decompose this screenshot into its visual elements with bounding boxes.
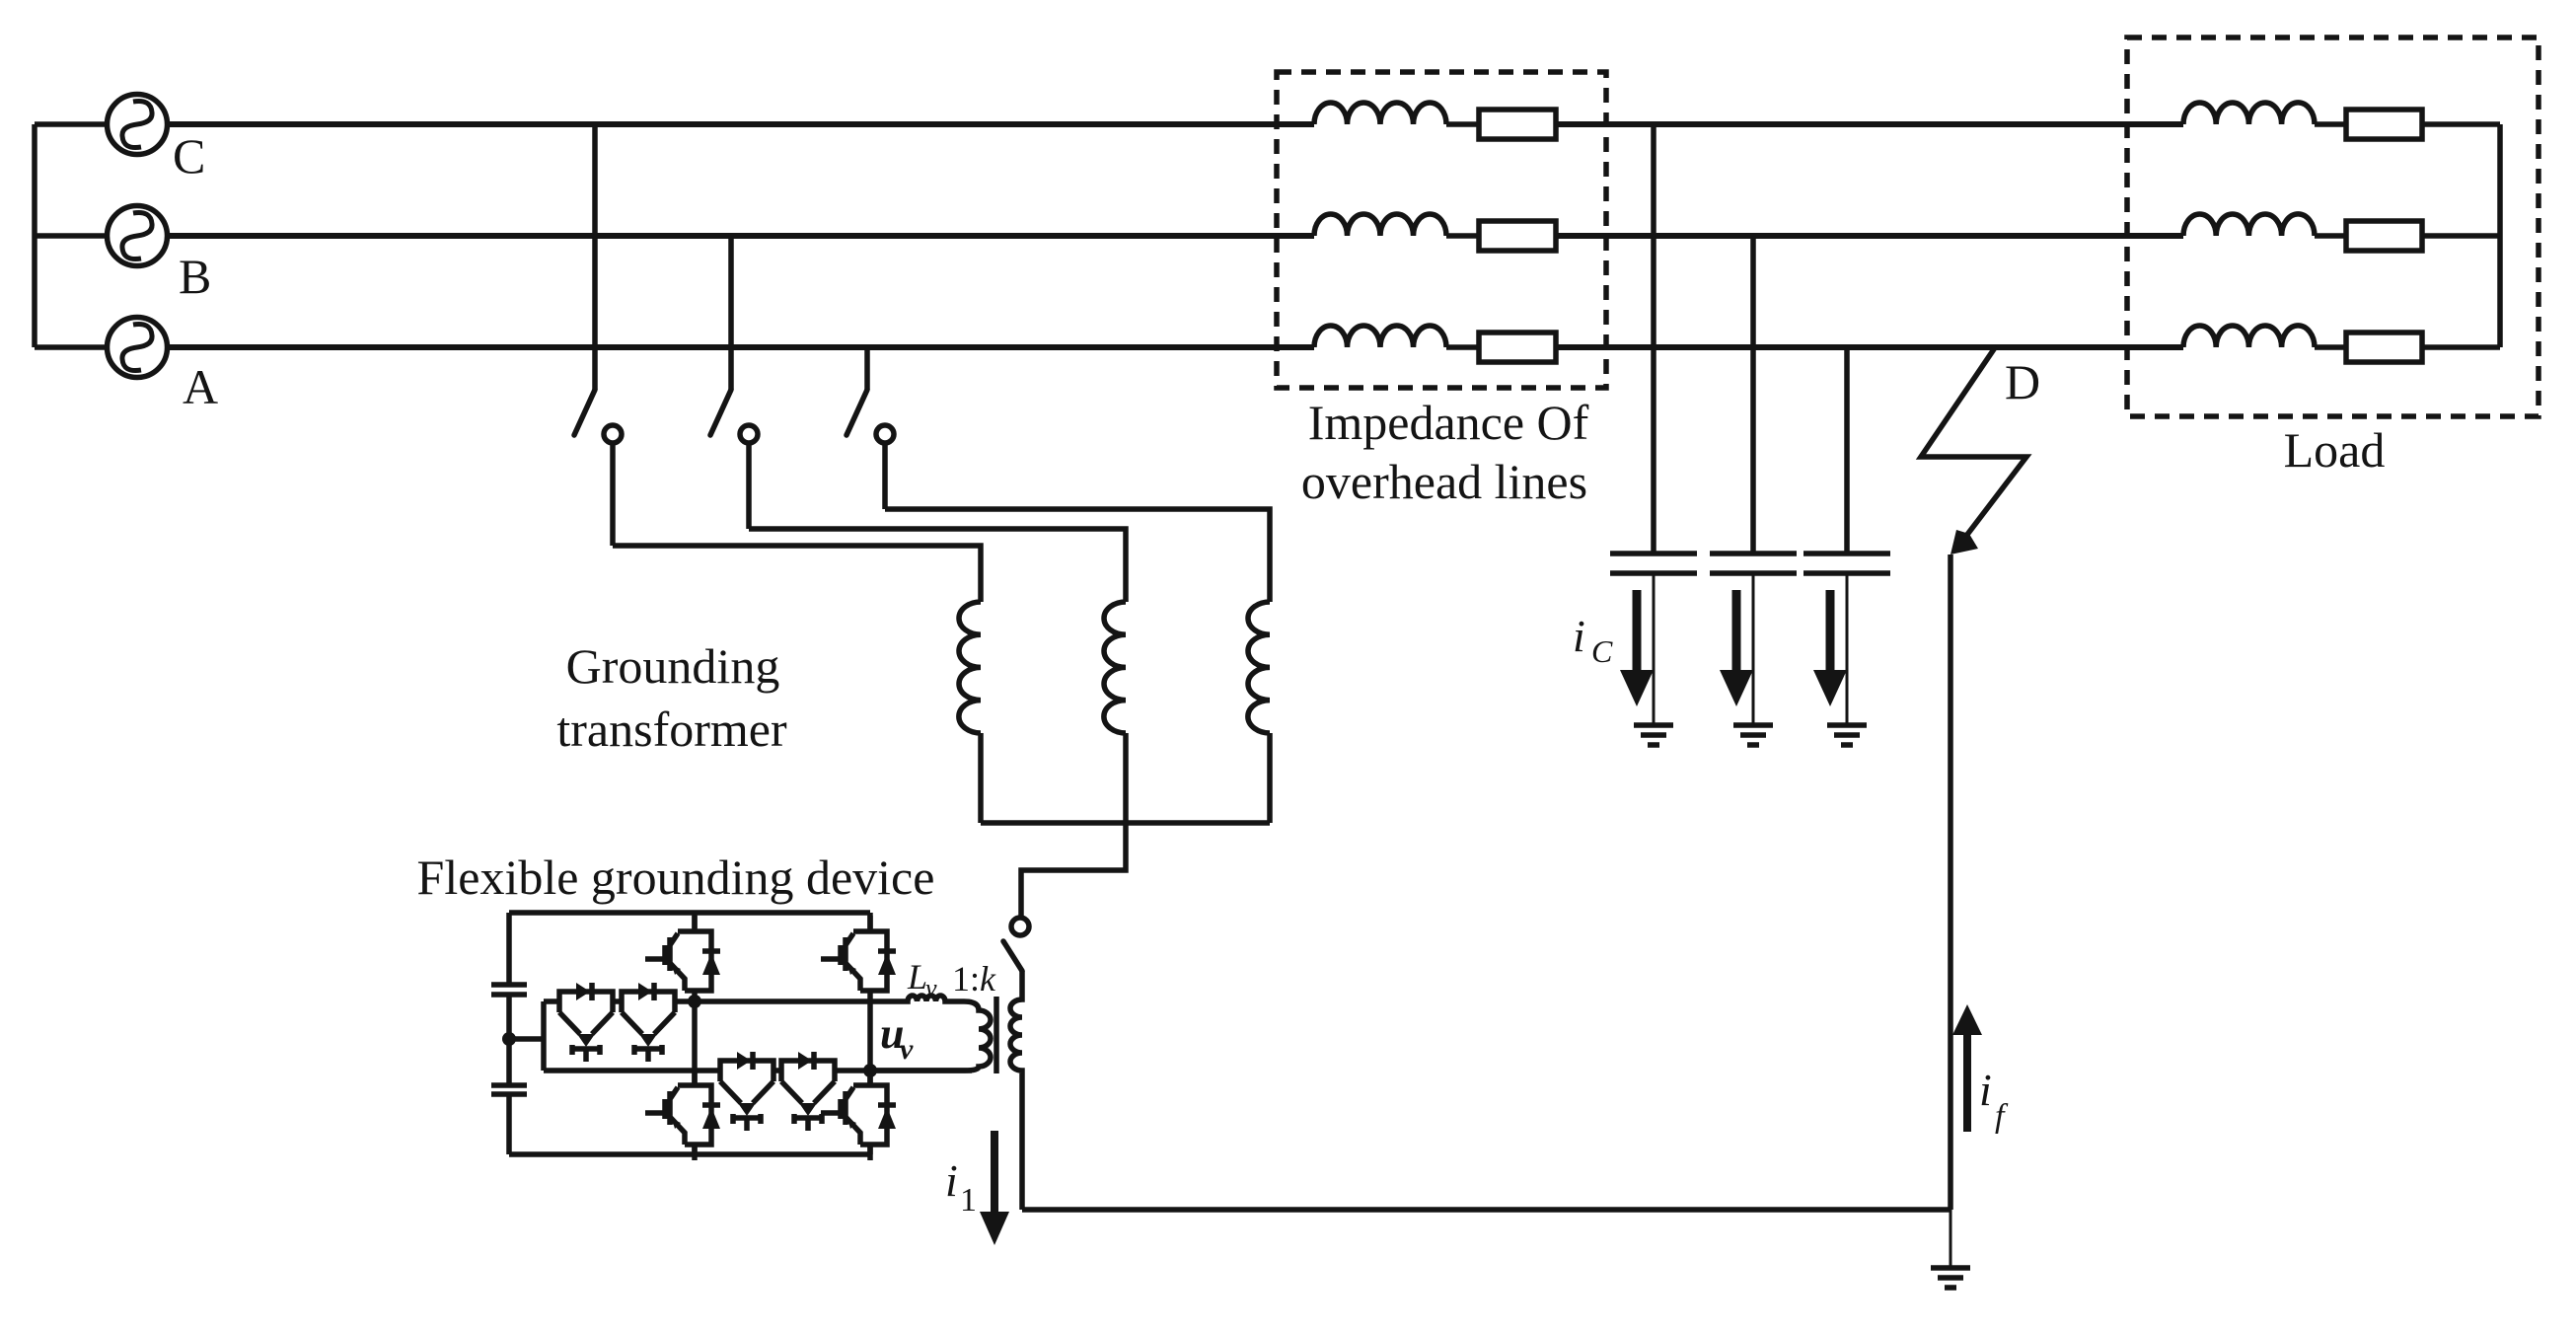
IGBT Q3 bottom-left (645, 1070, 720, 1160)
neutral switch S4 contact circle (1011, 918, 1029, 935)
tee column wire (541, 1001, 547, 1071)
wire cap tap phase B (1750, 236, 1756, 554)
thyristor unit T1 (559, 983, 613, 1062)
rail2 wire segment a (544, 1068, 720, 1073)
wire phase C after impedance (1556, 121, 2183, 127)
wire B ind-res (1446, 233, 1479, 239)
svg-text:D: D (2005, 354, 2040, 409)
wire load B right (2422, 233, 2500, 239)
svg-text:1: 1 (960, 1182, 977, 1219)
impedance inductor phase A (1314, 326, 1446, 347)
load wye tie wire (2497, 124, 2503, 347)
wire C ind-res (1446, 121, 1479, 127)
switch S3 blade (846, 390, 867, 435)
svg-text:i: i (1573, 611, 1585, 661)
impedance resistor phase B (1479, 221, 1556, 251)
wire phase B main (168, 233, 1315, 239)
wire phase C main (168, 121, 1315, 127)
wire switch S2 to coil W2 (749, 529, 1126, 602)
switch S3 lower wire (882, 442, 888, 509)
grounding transformer coil W1 (959, 602, 981, 733)
node rail1 center column (688, 995, 701, 1008)
grounding transformer coil W2 (1104, 602, 1126, 733)
load inductor phase B (2183, 214, 2315, 236)
switch S3 contact circle (876, 425, 894, 443)
bridge left rail wire upper (506, 913, 512, 985)
switch S2 blade (710, 390, 731, 435)
svg-text:Flexible grounding device: Flexible grounding device (417, 850, 935, 905)
ground for Cb (1733, 725, 1773, 745)
impedance inductor phase B (1314, 214, 1446, 236)
svg-text:C: C (173, 128, 205, 184)
current arrow iC phase A (1826, 590, 1835, 670)
right leg wire upper (867, 913, 873, 928)
wire load C (2315, 121, 2346, 127)
switch S2 vertical from phase B (728, 236, 734, 390)
svg-text:f: f (1995, 1098, 2009, 1135)
svg-text:i: i (1979, 1065, 1992, 1115)
wire fault to ground (1950, 1210, 1952, 1266)
svg-text:i: i (945, 1155, 958, 1206)
load inductor phase C (2183, 103, 2315, 124)
ground for Cc (1827, 725, 1867, 745)
wire coil W1 bottom (978, 733, 984, 823)
IGBT Q1 top-left (645, 916, 720, 1006)
wire cap Cb to ground (1752, 573, 1755, 723)
thyristor unit T2 (622, 983, 675, 1062)
wire switch S3 to coil W3 (885, 509, 1270, 602)
AC source C (108, 95, 168, 155)
svg-text:B: B (179, 249, 211, 304)
wire cap midpoint to tee (509, 1036, 544, 1042)
IGBT Q2 top-right (821, 916, 896, 1006)
rail1 wire segment a (544, 998, 559, 1004)
wire A ind-res (1446, 344, 1479, 350)
neutral switch S4 blade (1003, 941, 1022, 971)
bridge bottom rail wire (509, 1151, 870, 1157)
wire load B (2315, 233, 2346, 239)
svg-text:Load: Load (2284, 422, 2386, 478)
wire phase C left (35, 121, 108, 127)
impedance box dashed (1277, 72, 1606, 388)
current arrow if (1963, 1035, 1971, 1132)
wire cap tap phase C (1651, 124, 1656, 554)
node capacitor midpoint (502, 1032, 516, 1046)
wire cap tap phase A (1844, 347, 1850, 554)
IGBT Q4 bottom-right (821, 1070, 896, 1160)
wire coil W3 bottom (1267, 733, 1273, 823)
current arrow iC phase C (1633, 590, 1642, 670)
right leg wire mid (867, 1006, 873, 1085)
svg-text:C: C (1591, 633, 1613, 669)
bridge left rail wire mid (506, 995, 512, 1085)
wire coil W2 bottom (1123, 733, 1129, 823)
node rail2 right leg (863, 1064, 877, 1077)
switch S1 lower wire (610, 442, 616, 546)
AC source A (108, 318, 168, 378)
left bus wire (32, 124, 37, 347)
load resistor phase B (2346, 221, 2422, 251)
load box dashed (2127, 37, 2539, 416)
svg-text:A: A (183, 359, 218, 414)
capacitor Cb plates (1710, 554, 1797, 573)
ground for Ca (1634, 725, 1673, 745)
wire phase A left (35, 344, 108, 350)
svg-text:transformer: transformer (556, 702, 787, 757)
Lv inductor (870, 996, 964, 1001)
svg-text:Impedance Of: Impedance Of (1308, 395, 1589, 450)
DC capacitor Cd1 plates (491, 985, 527, 995)
current arrow iC phase B (1732, 590, 1741, 670)
wire transformer to fault ground (1022, 1207, 1950, 1213)
wire phase A main (168, 344, 1315, 350)
svg-text:overhead lines: overhead lines (1301, 454, 1587, 509)
switch S2 contact circle (740, 425, 758, 443)
load resistor phase A (2346, 333, 2422, 362)
wire cap Cc to ground (1846, 573, 1849, 723)
load resistor phase C (2346, 110, 2422, 139)
svg-text:Grounding: Grounding (566, 638, 780, 694)
rail2 wire segment b (773, 1068, 781, 1073)
rail1 wire segment b (613, 998, 622, 1004)
capacitor Cc plates (1803, 554, 1890, 573)
thyristor unit T3 (720, 1052, 773, 1131)
wire load A right (2422, 344, 2500, 350)
right leg wire lower (867, 1145, 873, 1154)
switch S2 lower wire (746, 442, 752, 529)
wire switch S1 to coil W1 (613, 546, 981, 602)
switch S1 contact circle (604, 425, 622, 443)
fault wire down (1948, 555, 1953, 1210)
center column wire lower (692, 1145, 698, 1154)
wire load A (2315, 344, 2346, 350)
wire cap Ca to ground (1653, 573, 1656, 723)
wire load C right (2422, 121, 2500, 127)
impedance inductor phase C (1314, 103, 1446, 124)
transformer secondary winding (870, 1001, 991, 1071)
impedance resistor phase A (1479, 333, 1556, 362)
grounding transformer coil W3 (1248, 602, 1270, 733)
ground at fault (1931, 1268, 1970, 1288)
switch S3 vertical from phase A (864, 347, 870, 390)
center column wire mid (692, 1006, 698, 1085)
AC source B (108, 206, 168, 266)
rail1 wire segment c (675, 998, 870, 1004)
svg-text:v: v (925, 974, 937, 1002)
wire phase A after impedance (1556, 344, 2183, 350)
transformer core bar (994, 997, 999, 1073)
bridge left rail wire lower (506, 1094, 512, 1154)
thyristor unit T4 (781, 1052, 835, 1131)
neutral wire from bus (1021, 823, 1126, 919)
svg-text:v: v (900, 1033, 914, 1066)
impedance resistor phase C (1479, 110, 1556, 139)
switch S1 blade (574, 390, 595, 435)
bridge top rail wire (509, 910, 870, 916)
switch S1 vertical from phase C (592, 124, 598, 390)
transformer primary winding (1010, 971, 1022, 1210)
wire phase B left (35, 233, 108, 239)
fault bolt at D (1921, 346, 2026, 540)
current arrow i1 (991, 1131, 998, 1212)
DC capacitor Cd2 plates (491, 1085, 527, 1094)
wire phase B after impedance (1556, 233, 2183, 239)
center column wire upper (692, 913, 698, 928)
rail2 wire segment c (834, 1068, 972, 1073)
load inductor phase A (2183, 326, 2315, 347)
capacitor Ca plates (1610, 554, 1697, 573)
svg-text:L: L (907, 957, 927, 997)
grounding transformer bottom bus wire (981, 820, 1270, 826)
svg-text:1:k: 1:k (952, 959, 996, 998)
